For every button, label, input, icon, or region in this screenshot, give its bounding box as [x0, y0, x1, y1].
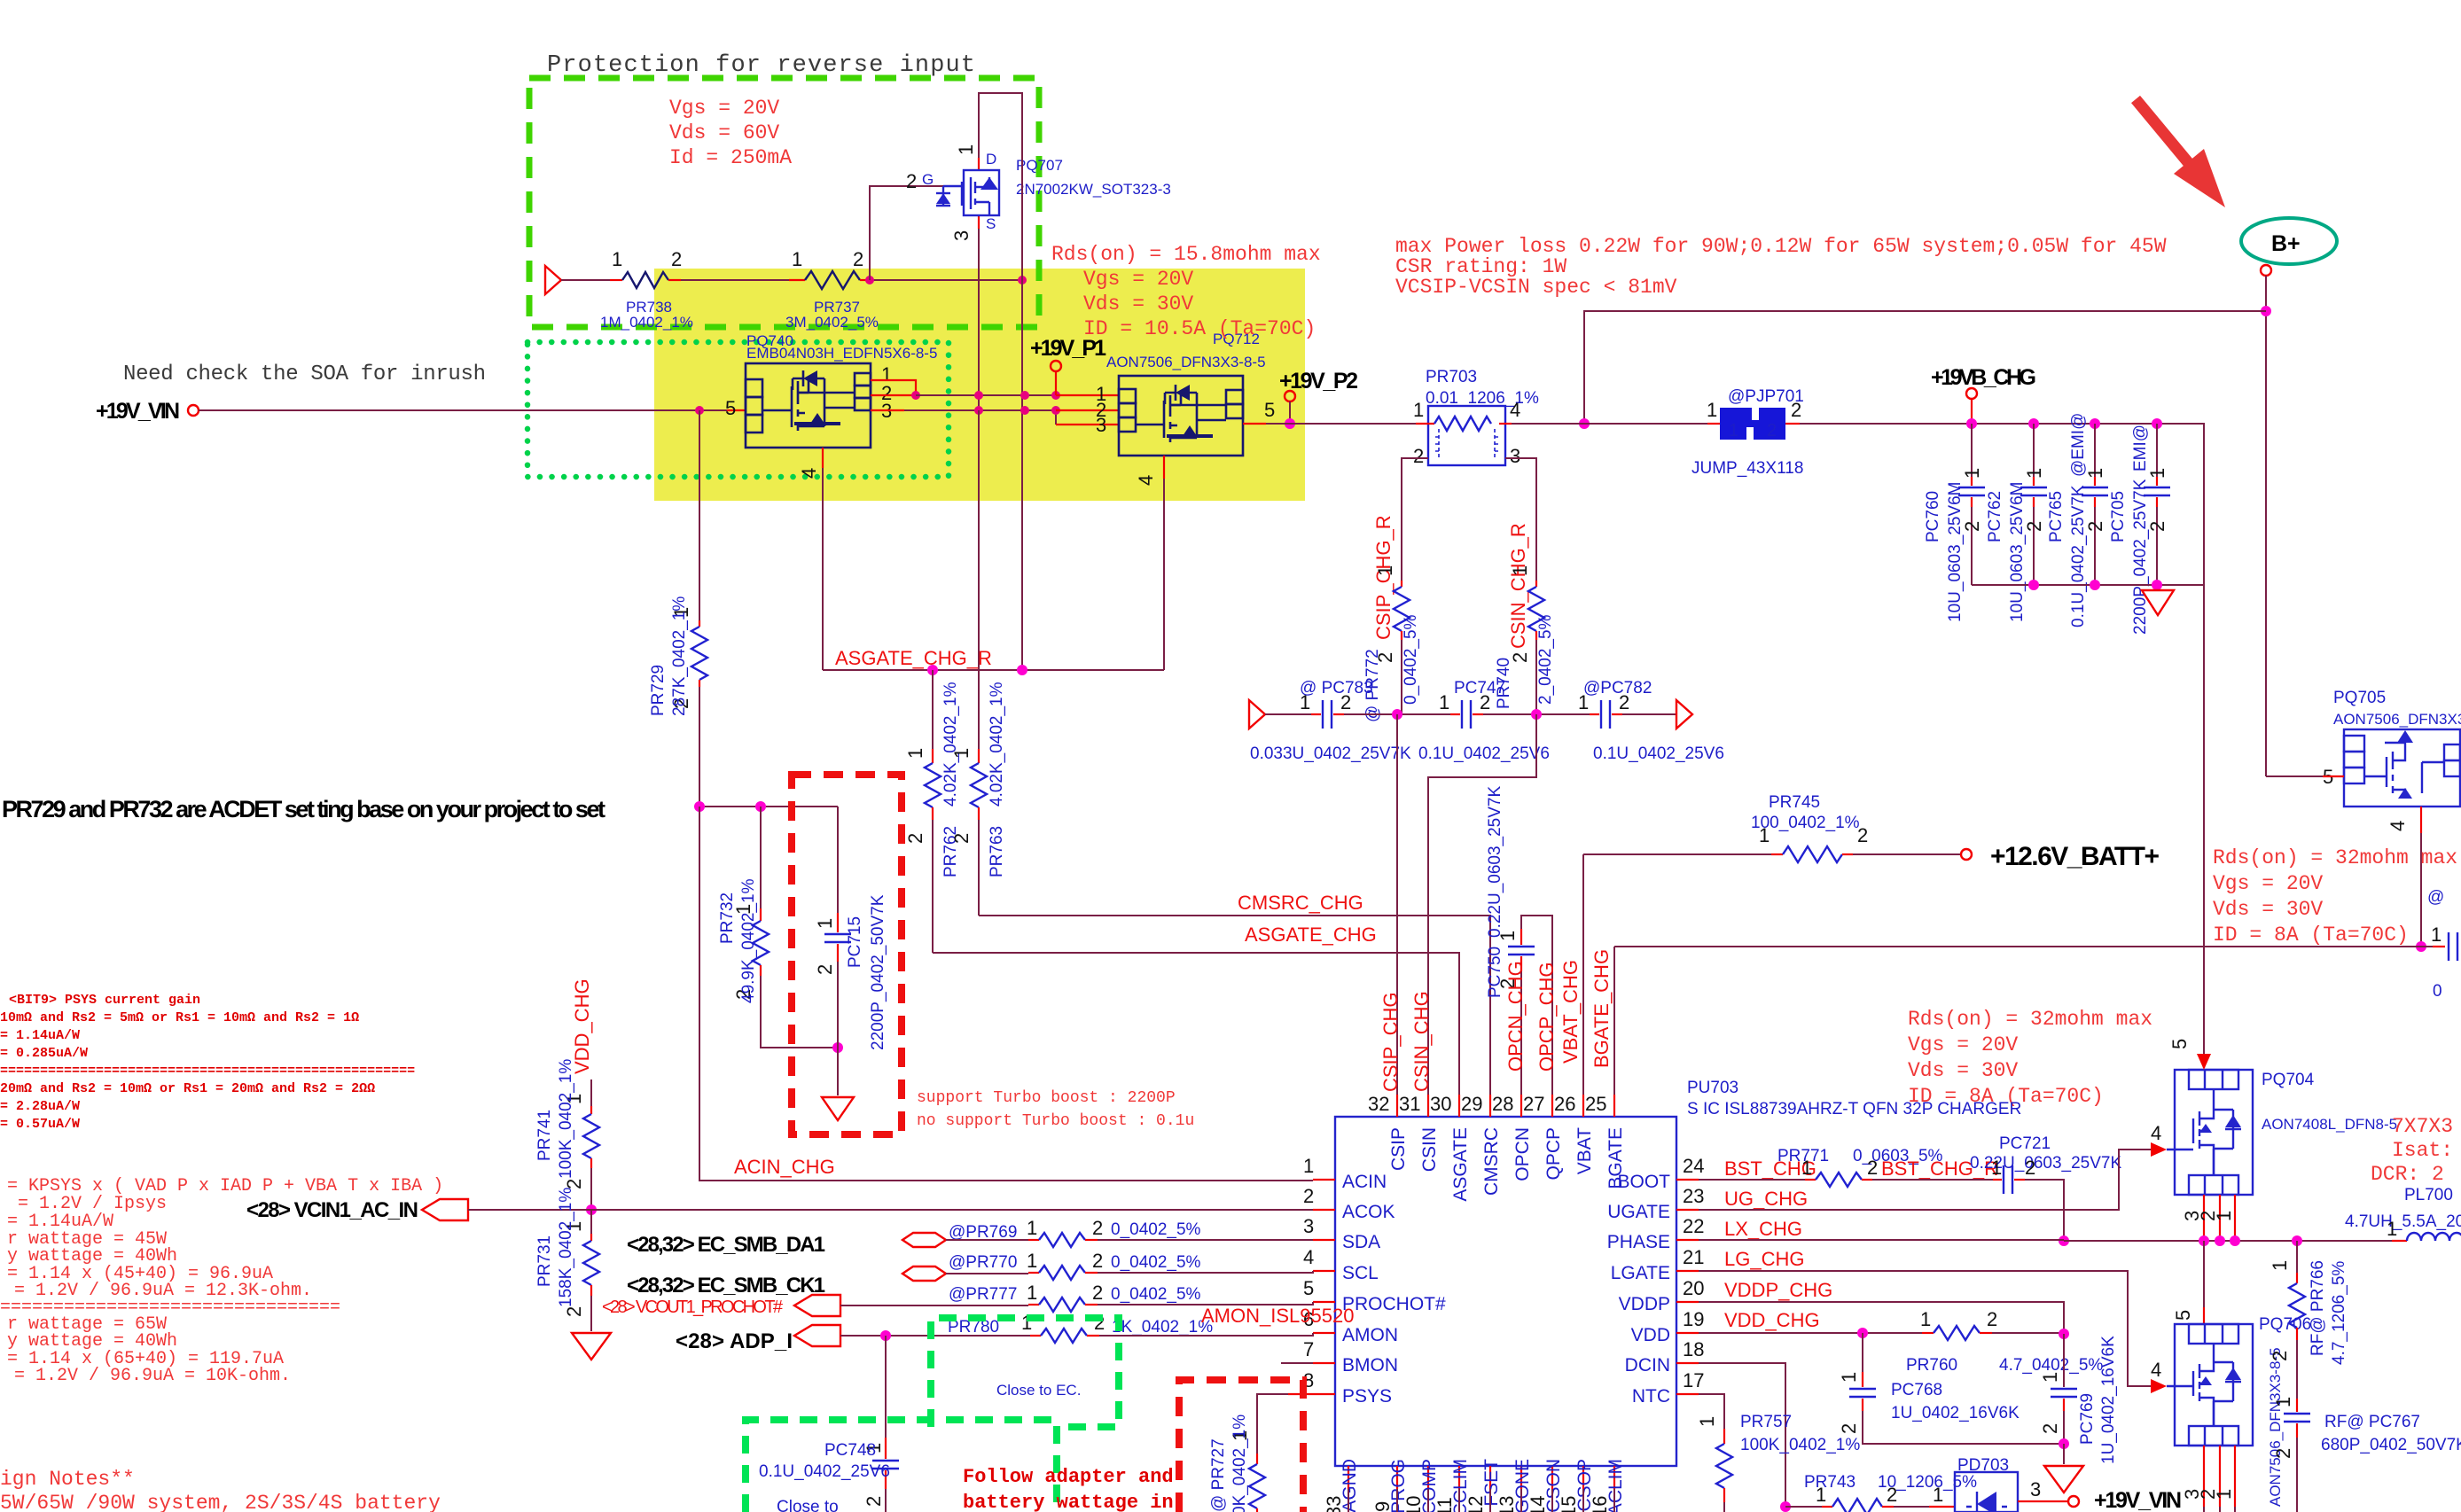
jumper PJP701 — [1691, 387, 1804, 478]
svg-text:D: D — [986, 151, 996, 168]
red dashed box PR727 — [1179, 1380, 1303, 1512]
red arrow into PQ704 gate — [2151, 1142, 2167, 1157]
svg-text:SDA: SDA — [1342, 1232, 1380, 1252]
svg-text:1: 1 — [2272, 1397, 2294, 1407]
capacitor PC705 — [2109, 424, 2170, 635]
capacitor PC768 — [1862, 1333, 1863, 1372]
wire PR770 to SCL — [1098, 1271, 1313, 1273]
junction DCIN/PR743 — [1780, 1501, 1791, 1512]
svg-text:26: 26 — [1554, 1093, 1575, 1115]
junction caps row 2 — [1531, 709, 1542, 720]
svg-text:Need check the SOA for inrush: Need check the SOA for inrush — [123, 362, 486, 386]
svg-text:2: 2 — [1791, 399, 1801, 421]
port EC_SMB_CK1 (hex) — [902, 1266, 946, 1281]
svg-text:18: 18 — [1683, 1338, 1704, 1360]
junction P2 — [1285, 418, 1295, 429]
svg-text:1: 1 — [1303, 1155, 1314, 1177]
svg-text:0.1U_0402_25V7K: 0.1U_0402_25V7K — [2069, 485, 2088, 627]
wire VDD row — [1699, 1332, 1922, 1334]
svg-text:+19V_P2: +19V_P2 — [1279, 369, 1358, 394]
transistor PQ740 EMB04N03H — [725, 332, 937, 479]
svg-text:VCSIP-VCSIN spec < 81mV: VCSIP-VCSIN spec < 81mV — [1395, 276, 1677, 299]
port arrow left (net stub into PR738) — [545, 266, 561, 294]
svg-text:25: 25 — [1585, 1093, 1606, 1115]
junction ADP_I / PC748 — [880, 1330, 891, 1341]
resistor PR766 — [2296, 1241, 2298, 1273]
capacitor PC747 — [1450, 713, 1460, 715]
svg-text:PR729 and PR732 are ACDET set: PR729 and PR732 are ACDET set ting base … — [2, 796, 605, 822]
svg-text:1U_0402_16V6K: 1U_0402_16V6K — [2099, 1336, 2118, 1464]
svg-text:@PC782: @PC782 — [1583, 679, 1652, 698]
svg-text:Vgs = 20V: Vgs = 20V — [2213, 872, 2323, 895]
wire CSIN jog down to pin31 — [1428, 714, 1536, 1095]
resistor PR777 — [1028, 1304, 1039, 1305]
junction ACDET PR732 — [755, 801, 766, 812]
svg-text:2: 2 — [863, 1496, 885, 1507]
wire LGATE to PQ706 gate — [1699, 1271, 2151, 1386]
svg-text:3: 3 — [1510, 445, 1520, 467]
svg-text:1: 1 — [1920, 1308, 1931, 1330]
svg-text:4.02K_0402_1%: 4.02K_0402_1% — [941, 682, 960, 807]
svg-text:<28,32> EC_SMB_CK1: <28,32> EC_SMB_CK1 — [627, 1274, 825, 1298]
svg-text:21: 21 — [1683, 1246, 1704, 1268]
pin 31 CSIN — [1427, 1095, 1429, 1117]
svg-text:Rds(on) = 15.8mohm max: Rds(on) = 15.8mohm max — [1051, 243, 1321, 266]
svg-text:2: 2 — [1092, 1282, 1103, 1304]
svg-text:Vds = 30V: Vds = 30V — [1908, 1059, 2018, 1082]
junction node PQ707 source column — [1018, 276, 1027, 284]
pin 11 CCLIM — [1458, 1466, 1460, 1489]
svg-text:2: 2 — [1767, 421, 1777, 440]
wire PQ705 pin4 down — [2420, 807, 2422, 833]
wire x1104 column continues down — [978, 410, 980, 749]
pin 28 OPCN — [1520, 1095, 1522, 1117]
svg-text:BGATE_CHG: BGATE_CHG — [1590, 949, 1613, 1068]
svg-text:Protection for reverse input: Protection for reverse input — [547, 52, 975, 79]
junctions cap bank top — [1966, 418, 1977, 429]
wire PR772 to cap row — [1397, 640, 1402, 714]
svg-text:0.1U_0402_25V6: 0.1U_0402_25V6 — [1593, 744, 1724, 763]
green dashed box close to EC — [931, 1318, 1119, 1427]
wire gate riser to PQ707 — [870, 186, 943, 280]
wire to right port — [1622, 713, 1676, 715]
svg-text:Rds(on) = 32mohm max: Rds(on) = 32mohm max — [1908, 1008, 2152, 1031]
wire main rail PR703 to jumper — [1512, 423, 1584, 425]
svg-text:battery wattage in: battery wattage in — [963, 1492, 1174, 1512]
wire node row y446 — [916, 394, 1056, 396]
wire to junction 2 — [1483, 713, 1590, 715]
svg-text:@EMI@: @EMI@ — [2069, 413, 2088, 477]
wire jumper out — [1785, 423, 1800, 425]
wire ACDET row — [699, 806, 838, 807]
pin 23 UGATE — [1676, 1209, 1699, 1211]
wire BGATE_CHG long run — [1614, 946, 2421, 947]
svg-text:CSIN: CSIN — [1419, 1127, 1440, 1172]
svg-text:2: 2 — [1092, 1250, 1103, 1272]
svg-text:UGATE: UGATE — [1607, 1202, 1670, 1222]
wire ADP_I row — [840, 1335, 1030, 1337]
pin 21 LGATE — [1676, 1270, 1699, 1272]
svg-text:0.1U_0402_25V6: 0.1U_0402_25V6 — [1418, 744, 1550, 763]
wire PR762 down to ASGATE_CHG — [932, 820, 934, 953]
terminal circle B+ — [2261, 265, 2271, 276]
svg-text:ID = 8A (Ta=70C): ID = 8A (Ta=70C) — [2213, 924, 2409, 947]
svg-text:1: 1 — [1961, 468, 1983, 479]
svg-text:20: 20 — [1683, 1277, 1704, 1299]
resistor PR729 — [699, 620, 700, 627]
transistor PQ705 — [2323, 689, 2461, 831]
wire to PR769 — [946, 1239, 1028, 1241]
svg-text:PHASE: PHASE — [1607, 1232, 1670, 1252]
wire PR703 pin2 down — [1402, 458, 1428, 581]
svg-text:287K_0402_1%: 287K_0402_1% — [670, 596, 689, 716]
svg-text:4: 4 — [2387, 821, 2409, 831]
resistor PR745 — [1583, 793, 1868, 862]
svg-text:2: 2 — [2272, 1448, 2294, 1459]
wire to PR770 — [946, 1273, 1028, 1274]
svg-text:VDD: VDD — [1631, 1325, 1670, 1345]
wire PSYS to PR727 — [1257, 1394, 1288, 1454]
svg-text:CSIP: CSIP — [1388, 1127, 1409, 1171]
pin 20 VDDP — [1676, 1301, 1699, 1303]
wire PR729 column — [699, 410, 700, 620]
svg-text:ASGATE_CHG: ASGATE_CHG — [1245, 924, 1377, 946]
svg-text:680P_0402_50V7K: 680P_0402_50V7K — [2321, 1436, 2461, 1454]
big red arrow annotation — [2136, 99, 2200, 177]
svg-text:PR757: PR757 — [1740, 1413, 1792, 1431]
svg-text:0: 0 — [2433, 982, 2442, 1001]
wire UGATE to PQ704 gate — [1699, 1150, 2151, 1210]
svg-text:1: 1 — [1729, 421, 1738, 440]
pin 26 VBAT — [1582, 1095, 1584, 1117]
svg-text:PQ704: PQ704 — [2262, 1071, 2315, 1089]
svg-text:<28> VCOUT1_PROCHOT#: <28> VCOUT1_PROCHOT# — [602, 1298, 784, 1317]
svg-text:PC769: PC769 — [2078, 1393, 2097, 1445]
svg-text:1: 1 — [1696, 1416, 1718, 1427]
svg-text:PQ706: PQ706 — [2259, 1315, 2311, 1334]
svg-text:4: 4 — [2151, 1359, 2161, 1381]
wire PR777 to PROCHOT# — [1098, 1302, 1313, 1305]
svg-text:27: 27 — [1523, 1093, 1544, 1115]
svg-text:support Turbo boost : 2200P: support Turbo boost : 2200P — [917, 1089, 1176, 1107]
yellow highlight region — [654, 269, 1305, 501]
svg-text:VDDP: VDDP — [1619, 1294, 1670, 1314]
svg-text:2: 2 — [1303, 1185, 1314, 1207]
wire BOOT to PR771 — [1699, 1179, 1805, 1181]
capacitor PC748 — [885, 1438, 887, 1459]
port EC_SMB_DA1 (hex) — [902, 1233, 946, 1247]
svg-text:4.7UH_5.5A_20%_: 4.7UH_5.5A_20%_ — [2345, 1212, 2461, 1231]
svg-text:10mΩ and Rs2 = 5mΩ or Rs1 =: 10mΩ and Rs2 = 5mΩ or Rs1 = 10mΩ and Rs2… — [0, 1010, 359, 1025]
pin 8 PSYS — [1288, 1393, 1335, 1395]
junction BGATE at PQ705 source — [2416, 941, 2426, 952]
svg-text:<28,32> EC_SMB_DA1: <28,32> EC_SMB_DA1 — [627, 1233, 825, 1257]
svg-text:4: 4 — [1510, 399, 1520, 421]
svg-text:VDDP_CHG: VDDP_CHG — [1724, 1279, 1832, 1301]
svg-text:2200P_0402_50V7K: 2200P_0402_50V7K — [869, 894, 887, 1050]
resistor PR762 column — [932, 749, 934, 763]
svg-text:OPCP_CHG: OPCP_CHG — [1535, 963, 1558, 1072]
junction main rail to B+ riser — [1579, 418, 1590, 429]
svg-text:PC762: PC762 — [1986, 491, 2004, 542]
wire PR780 to AMON — [1099, 1333, 1313, 1336]
wire PQ740 pin3 row y463 — [871, 409, 904, 411]
wire ASGATE_CHG row — [933, 953, 1459, 1095]
resistor PR769 — [1028, 1239, 1039, 1241]
svg-text:1K_0402_1%: 1K_0402_1% — [1112, 1318, 1213, 1337]
wire PQ740 pin2 — [871, 394, 916, 396]
svg-text:B+: B+ — [2271, 231, 2301, 256]
svg-text:PU703: PU703 — [1687, 1079, 1738, 1097]
junction caps row 1 — [1392, 709, 1402, 720]
wire NTC down — [1699, 1394, 1724, 1429]
svg-text:0_0402_5%: 0_0402_5% — [1111, 1253, 1201, 1272]
capacitor PC760 — [1924, 424, 1985, 622]
svg-text:+12.6V_BATT+: +12.6V_BATT+ — [1990, 842, 2160, 871]
wire PR737 pin2 to node — [870, 279, 1022, 281]
resistor PR772 — [1401, 581, 1402, 587]
svg-text:1: 1 — [1816, 1484, 1826, 1506]
svg-text:<28> VCIN1_AC_IN: <28> VCIN1_AC_IN — [246, 1198, 418, 1222]
svg-text:2: 2 — [2039, 1423, 2061, 1434]
svg-text:PQ705: PQ705 — [2333, 689, 2386, 707]
svg-text:1: 1 — [2269, 1260, 2291, 1271]
svg-text:SCL: SCL — [1342, 1263, 1379, 1283]
svg-text:CMSRC: CMSRC — [1481, 1127, 1502, 1196]
pin 22 PHASE — [1676, 1239, 1699, 1241]
svg-text:LG_CHG: LG_CHG — [1724, 1248, 1804, 1270]
wire to PR777 — [840, 1305, 1028, 1306]
svg-text:2: 2 — [904, 833, 926, 844]
svg-text:@PR770: @PR770 — [949, 1253, 1017, 1272]
svg-text:1: 1 — [1838, 1372, 1860, 1383]
svg-text:2: 2 — [2269, 1351, 2291, 1361]
wire VDDP to PC769 — [1699, 1302, 2064, 1334]
svg-text:1: 1 — [1027, 1217, 1037, 1239]
svg-text:G: G — [922, 171, 934, 188]
capacitor at right edge (BGATE RC) — [2449, 932, 2457, 961]
wire BGATE riser from pin25 — [1613, 947, 1615, 1095]
svg-text:Follow adapter and: Follow adapter and — [963, 1466, 1174, 1488]
svg-text:@ PC783: @ PC783 — [1300, 679, 1373, 698]
svg-text:1: 1 — [2387, 1218, 2397, 1240]
junctions cap bank bottom — [2028, 580, 2039, 590]
svg-text:3: 3 — [950, 230, 973, 241]
svg-text:Vds = 30V: Vds = 30V — [2213, 898, 2323, 921]
svg-text:2N7002KW_SOT323-3: 2N7002KW_SOT323-3 — [1016, 181, 1171, 198]
svg-text:EMI@: EMI@ — [2131, 425, 2150, 472]
terminal circle +19V_P2 — [1285, 391, 1295, 401]
ground symbol cap bank — [2142, 590, 2174, 615]
svg-text:100K_0402_1%: 100K_0402_1% — [1740, 1436, 1860, 1454]
svg-text:5: 5 — [2168, 1039, 2191, 1049]
pin 5 PROCHOT# — [1313, 1301, 1335, 1303]
wire PR762 column top — [932, 670, 934, 749]
wire PC721 to LX — [2025, 1180, 2064, 1241]
red arrow into PQ706 gate — [2151, 1379, 2167, 1393]
terminal circle +12.6V_BATT+ — [1961, 849, 1972, 860]
svg-text:4.7_1206_5%: 4.7_1206_5% — [2330, 1261, 2348, 1365]
pin 7 BMON — [1313, 1362, 1335, 1364]
pin 15 CSOP — [1582, 1466, 1584, 1489]
wire PHASE LX long row — [1699, 1240, 2392, 1241]
svg-text:ACOK: ACOK — [1342, 1202, 1395, 1222]
svg-text:2: 2 — [853, 248, 863, 270]
svg-text:4: 4 — [1135, 475, 1157, 486]
svg-text:Isat:: Isat: — [2392, 1139, 2453, 1162]
svg-text:+19VB_CHG: +19VB_CHG — [1931, 365, 2036, 390]
svg-text:PC721: PC721 — [1999, 1134, 2051, 1153]
svg-text:0.1U_0402_25V6: 0.1U_0402_25V6 — [759, 1462, 890, 1481]
wire B+ vertical — [2265, 276, 2267, 776]
svg-text:DCR: 2: DCR: 2 — [2371, 1163, 2444, 1186]
wire PR731 to ground — [590, 1296, 592, 1331]
svg-text:1: 1 — [792, 248, 802, 270]
svg-text:==============================: ========================================… — [0, 1064, 415, 1079]
B+ ellipse — [2241, 218, 2337, 264]
svg-text:0_0402_5%: 0_0402_5% — [1111, 1220, 1201, 1239]
svg-text:PC765: PC765 — [2047, 491, 2066, 542]
svg-text:4: 4 — [2151, 1122, 2161, 1144]
pin 19 VDD — [1676, 1332, 1699, 1334]
capacitor PC767 — [2296, 1399, 2298, 1412]
diode PD703 — [1955, 1456, 2018, 1512]
resistor PR737 — [789, 279, 805, 281]
wire cap bank bottom rail — [1972, 584, 2204, 586]
pin 16 ACLIM — [1613, 1466, 1615, 1489]
svg-text:3: 3 — [1303, 1215, 1314, 1237]
wire PR738 to PR737 — [681, 279, 789, 281]
svg-text:158K_0402_1%: 158K_0402_1% — [557, 1188, 575, 1307]
ground symbol PC769 — [2044, 1466, 2083, 1493]
svg-text:2: 2 — [950, 833, 973, 844]
transistor PQ712 AON7506 — [1096, 331, 1275, 486]
svg-text:LGATE: LGATE — [1611, 1263, 1670, 1283]
svg-text:AGND: AGND — [1340, 1459, 1360, 1512]
svg-text:BMON: BMON — [1342, 1355, 1398, 1376]
svg-text:PL700: PL700 — [2404, 1186, 2453, 1204]
wire PR741 to VCIN1 junction — [590, 1168, 592, 1210]
svg-text:OPCN: OPCN — [1512, 1127, 1533, 1181]
svg-text:= 2.28uA/W: = 2.28uA/W — [0, 1099, 80, 1114]
wire PQ707 drain up and over — [979, 93, 1022, 280]
svg-text:32: 32 — [1368, 1093, 1389, 1115]
svg-text:2: 2 — [814, 964, 836, 975]
junction col x1156 — [1020, 391, 1029, 400]
wire to junction — [1344, 713, 1450, 715]
svg-text:1: 1 — [1991, 1157, 2002, 1179]
svg-text:1: 1 — [1933, 1484, 1943, 1506]
svg-text:DCIN: DCIN — [1625, 1355, 1670, 1376]
svg-text:PC750: PC750 — [1486, 947, 1504, 998]
svg-text:JUMP_43X118: JUMP_43X118 — [1691, 459, 1803, 478]
wire port to PR738 — [561, 279, 610, 281]
wire PQ740 pin4 down — [822, 448, 824, 468]
svg-text:@: @ — [2427, 888, 2444, 907]
svg-text:CSIP_CHG: CSIP_CHG — [1379, 993, 1402, 1092]
svg-text:4: 4 — [1303, 1246, 1314, 1268]
wire PQ707 source down — [978, 229, 980, 749]
svg-text:5: 5 — [1264, 399, 1275, 421]
svg-text:19: 19 — [1683, 1308, 1704, 1330]
svg-text:PR743: PR743 — [1804, 1473, 1856, 1492]
junction BST cap on LX — [2059, 1235, 2069, 1246]
svg-text:28: 28 — [1492, 1093, 1513, 1115]
wire to ground — [2063, 1444, 2065, 1464]
junctions LX at PQ704 — [2199, 1235, 2209, 1246]
svg-text:VBAT: VBAT — [1574, 1127, 1595, 1174]
svg-text:Close to EC.: Close to EC. — [996, 1382, 1081, 1399]
wire PR766 to PC767 — [2296, 1340, 2298, 1399]
svg-text:1: 1 — [1439, 691, 1449, 713]
svg-text:49.9K_0402_1%: 49.9K_0402_1% — [739, 878, 758, 1003]
junction ASGATE_R col1153 — [1017, 665, 1027, 675]
resistor PR727 — [1256, 1454, 1258, 1464]
wire node column down to ASGATE_CHG_R — [1021, 280, 1023, 670]
port ADP_I — [794, 1325, 840, 1346]
wire PR760 to PC769 junction — [1992, 1332, 2064, 1334]
svg-text:Close to: Close to — [777, 1498, 839, 1512]
resistor PR741 — [590, 1106, 592, 1114]
wire ASGATE_CHG_R row — [823, 669, 1164, 671]
junction B+ feed — [2261, 306, 2271, 316]
svg-text:PC760: PC760 — [1924, 491, 1942, 542]
svg-text:PC768: PC768 — [1891, 1381, 1942, 1399]
junction +19V_P1 column — [1051, 391, 1060, 400]
wire PD703 to +19V_VIN — [2018, 1500, 2068, 1502]
svg-text:3M_0402_5%: 3M_0402_5% — [785, 314, 879, 331]
resistor PR732 — [760, 807, 762, 908]
pin 4 SCL — [1313, 1270, 1335, 1272]
svg-text:1: 1 — [2023, 468, 2045, 479]
pin 25 BGATE — [1613, 1095, 1615, 1117]
pin 10 COMP — [1427, 1466, 1429, 1489]
svg-text:1: 1 — [612, 248, 622, 270]
svg-text:OPCN_CHG: OPCN_CHG — [1504, 961, 1527, 1072]
svg-text:PR703: PR703 — [1426, 368, 1477, 386]
svg-text:1: 1 — [1027, 1250, 1037, 1272]
svg-text:1: 1 — [1374, 565, 1396, 576]
wire +19VB rail down to PQ704 — [2203, 585, 2205, 1056]
svg-text:PR741: PR741 — [535, 1110, 554, 1161]
svg-text:no support Turbo boost : 0.1u: no support Turbo boost : 0.1u — [917, 1112, 1194, 1130]
svg-text:2: 2 — [1887, 1484, 1897, 1506]
svg-text:QPCP: QPCP — [1543, 1127, 1564, 1181]
wire to PD703 — [1894, 1506, 1929, 1508]
svg-text:1: 1 — [1707, 399, 1717, 421]
svg-text:1: 1 — [1413, 399, 1424, 421]
svg-text:10U_0603_25V6M: 10U_0603_25V6M — [2008, 482, 2027, 622]
pin 17 NTC — [1676, 1393, 1699, 1395]
svg-text:0_0402_5%: 0_0402_5% — [1402, 614, 1420, 705]
wire PR763 down to CMSRC_CHG — [978, 820, 980, 916]
svg-text:@PR777: @PR777 — [949, 1285, 1017, 1304]
wire DCIN down — [1699, 1363, 1785, 1507]
wire PR745 to +12.6V_BATT+ — [1853, 853, 1961, 855]
svg-text:7X7X3: 7X7X3 — [2392, 1115, 2453, 1138]
pin 29 CMSRC — [1489, 1095, 1491, 1117]
svg-text:S IC ISL88739AHRZ-T QFN 32P CH: S IC ISL88739AHRZ-T QFN 32P CHARGER — [1687, 1100, 2021, 1118]
pin 18 DCIN — [1676, 1362, 1699, 1364]
wire CSIP column down to pin32 — [1396, 714, 1398, 1095]
pin 13 BATGONE — [1520, 1466, 1522, 1489]
svg-text:<28> ADP_I: <28> ADP_I — [676, 1329, 793, 1353]
terminal circle +19VB_CHG — [1966, 388, 1977, 399]
terminal circle +19V_VIN bottom — [2068, 1496, 2079, 1507]
svg-text:24: 24 — [1683, 1155, 1704, 1177]
junction col x1104 — [974, 391, 983, 400]
svg-text:29: 29 — [1461, 1093, 1482, 1115]
